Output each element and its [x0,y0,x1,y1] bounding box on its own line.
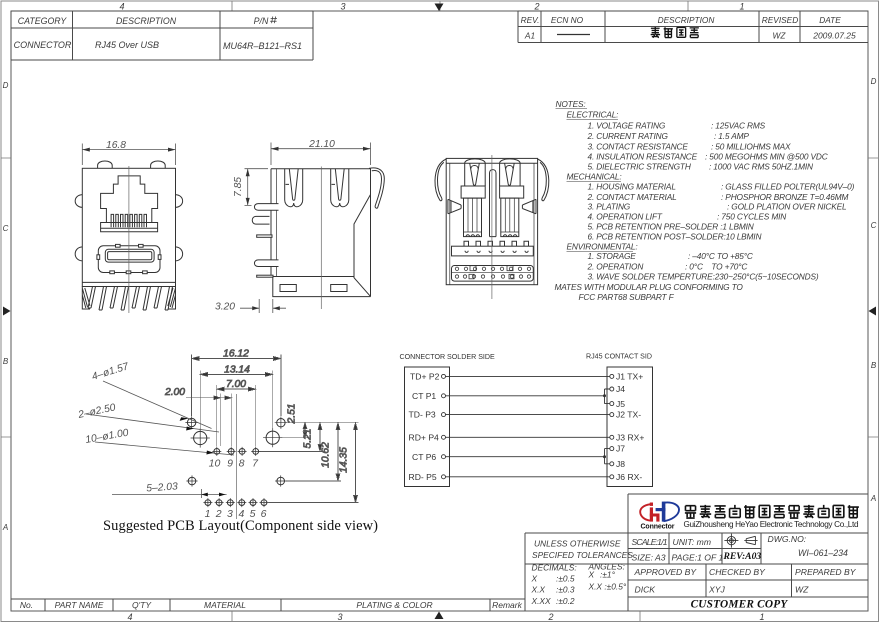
rear wing hook left [435,159,446,201]
side inner chamfer edge [354,195,371,297]
svg-text:PAGE:1 OF 1: PAGE:1 OF 1 [672,553,724,563]
pin 1 [205,500,211,506]
dim 16.8 extension lines [82,144,175,166]
svg-text::±0.3: :±0.3 [556,585,575,595]
dim 2.00 leader [186,397,231,399]
pcb extension lines vertical [192,355,281,447]
side hook tab [252,216,269,224]
rear latch finger left base [461,186,485,198]
svg-text:J4: J4 [616,384,625,394]
front side latch top-right [176,195,183,208]
side press tab pill 1 [254,204,278,211]
svg-text:SPECIFED TOLERANCES: SPECIFED TOLERANCES [532,550,633,560]
wire CTP6 to J7/J8 [446,449,610,464]
rear latch finger left [465,159,486,186]
wire TD-P3 to J2 [446,414,610,416]
svg-text:: 1.5 AMP: : 1.5 AMP [714,131,749,141]
rear side funnel left [448,199,461,214]
junction dot CT P6 [603,455,606,458]
center arrow top [435,4,444,12]
svg-text:2.51: 2.51 [287,403,298,424]
rear lower band [452,266,534,282]
junction dot CT P1 [603,394,606,397]
svg-text:DWG.NO:: DWG.NO: [768,534,807,544]
logo blue bar horizontal [656,508,666,511]
PCB LAYOUT [164,349,359,503]
svg-text::±0.2: :±0.2 [556,596,575,606]
svg-text:PART NAME: PART NAME [55,600,104,610]
svg-text:DATE: DATE [819,15,841,25]
svg-text:: 50 MILLIOHMS MAX: : 50 MILLIOHMS MAX [711,142,791,152]
svg-text:7: 7 [252,458,259,470]
rear latch finger right [500,159,520,186]
svg-text:ENVIRONMENTAL:: ENVIRONMENTAL: [567,242,638,252]
pin 10 [214,449,220,455]
dim 2.51 line [304,423,306,438]
side small bar [257,235,272,237]
dim 3.20 extension lines [259,299,273,313]
logo red left leg [650,507,653,521]
svg-text:: GOLD PLATION OVER NICKEL: : GOLD PLATION OVER NICKEL [727,202,847,212]
front leg hatch right [168,287,176,310]
svg-text:2. CURRENT RATING: 2. CURRENT RATING [587,131,669,141]
logo blue swoosh [663,502,679,521]
dim 21.10 extension lines [271,143,371,166]
svg-text:7.00: 7.00 [226,379,246,390]
svg-text:REVISED: REVISED [762,15,798,25]
logo red crossbar [650,514,660,517]
hole 2.03 bottom-left [188,477,196,485]
dim 3.20 arrows [252,306,259,310]
ECN dash [557,34,590,36]
center arrow right [869,307,877,316]
plate hole left [280,285,296,292]
svg-text:ECN NO: ECN NO [551,15,584,25]
usb nubs [97,244,161,273]
svg-text:CONNECTOR: CONNECTOR [14,40,72,50]
center arrow left [3,307,11,316]
svg-text:GuiZhousheng HeYao Electronic: GuiZhousheng HeYao Electronic Technology… [684,520,859,529]
rear contact housing right [501,198,519,237]
zone ticks top [232,1,688,11]
svg-text:J1 TX+: J1 TX+ [616,372,643,382]
dim 5.21 line [319,423,321,452]
svg-text:WZ: WZ [795,585,809,595]
rear housing right contacts [503,235,517,237]
hole 1.57 top-right [277,419,285,427]
svg-text:B: B [871,361,877,370]
front body outline [82,168,175,286]
side ground finger (top right) [369,168,384,208]
svg-text:DESCRIPTION: DESCRIPTION [658,15,715,25]
wiring left box [405,367,450,487]
FRONT VIEW [75,161,182,310]
rear wing hook right [538,159,549,201]
svg-text:CHECKED BY: CHECKED BY [709,567,766,577]
pin 3 [227,500,233,506]
hole 2.03 bottom-right [277,477,285,485]
rj45 inner shelf [101,223,158,229]
hole 1.57 top-left [187,418,195,426]
svg-text:: 1000 VAC RMS 50HZ.1MIN: : 1000 VAC RMS 50HZ.1MIN [709,162,813,172]
svg-text:: 500 MEGOHMS MIN @500 VDC: : 500 MEGOHMS MIN @500 VDC [705,152,829,162]
svg-text:16.12: 16.12 [223,349,249,360]
svg-text:NOTES:: NOTES: [556,99,586,109]
rear side funnel right [522,199,536,214]
svg-text:RJ45 CONTACT SID: RJ45 CONTACT SID [586,353,652,361]
BOTTOM STRIP grid [11,599,525,611]
zone ticks bottom [232,611,640,621]
svg-text:DECIMALS:: DECIMALS: [532,563,577,573]
pin 7 [253,449,259,455]
svg-text:2.00: 2.00 [164,387,185,398]
side body outline [271,169,371,297]
svg-text:MATES WITH MODULAR PLUG CONFOR: MATES WITH MODULAR PLUG CONFORMING TO [555,282,744,292]
side tail plate [257,275,273,277]
dim 3.20 line [240,307,286,309]
svg-text:X.XX: X.XX [531,596,551,606]
svg-text:4–ø1.57: 4–ø1.57 [91,361,132,383]
svg-text:RD- P5: RD- P5 [409,472,437,482]
svg-text::±1°: :±1° [600,570,616,580]
TOLERANCE BLOCK box [525,533,628,611]
svg-text:2009.07.25: 2009.07.25 [812,31,856,41]
pin 6 [261,500,267,506]
front side latch bottom-left [75,247,82,261]
rear band divider [452,272,534,274]
svg-text:3. CONTACT RESISTANCE: 3. CONTACT RESISTANCE [588,142,689,152]
left pin circles [442,374,446,378]
svg-text:X: X [588,570,595,580]
svg-text:4: 4 [127,612,132,622]
svg-text:13.14: 13.14 [224,364,250,375]
dim 13.14 line [200,373,273,375]
side inner wall line [276,169,278,277]
dim 16.12 line [192,358,281,360]
svg-text:21.10: 21.10 [308,139,335,150]
svg-text:CUSTOMER COPY: CUSTOMER COPY [691,599,789,611]
side centerline [320,167,322,310]
svg-text:1. STORAGE: 1. STORAGE [588,251,637,261]
front top bump left [98,161,113,168]
svg-text:CT P1: CT P1 [412,391,436,401]
svg-text:CT P6: CT P6 [412,452,436,462]
svg-text:: 750 CYCLES MIN: : 750 CYCLES MIN [717,212,786,222]
svg-text:5–2.03: 5–2.03 [146,481,178,494]
svg-text:SCALE:1/1: SCALE:1/1 [632,537,668,547]
rear body outline [446,158,537,284]
svg-text:No.: No. [20,600,33,610]
logo red right leg [656,514,659,522]
svg-text:Q'TY: Q'TY [132,600,152,610]
side bottom plate [273,277,371,297]
REAR VIEW [435,158,549,284]
svg-text:J2 TX-: J2 TX- [616,410,641,420]
SIDE VIEW [252,168,384,297]
svg-text:REV:A03: REV:A03 [723,551,762,562]
hole 2.50 right [266,431,279,444]
svg-text:9: 9 [227,458,233,470]
svg-text:Suggested PCB Layout(Component: Suggested PCB Layout(Component side view… [103,518,378,534]
wire RD+P4 to J3 [446,436,610,438]
svg-text::±0.5: :±0.5 [556,574,575,584]
svg-text:: PHOSPHOR BRONZE T=0.46MM: : PHOSPHOR BRONZE T=0.46MM [721,192,849,202]
svg-text:D: D [871,77,877,86]
svg-text:PLATING & COLOR: PLATING & COLOR [356,600,432,610]
svg-text:2. CONTACT MATERIAL: 2. CONTACT MATERIAL [587,192,678,202]
pin 9 [228,449,234,455]
projection symbol circle [724,534,738,548]
wire CTP1 to J4/J5 [446,389,610,404]
svg-text:P/N: P/N [254,16,269,26]
wire RD-P5 to J6 [446,476,610,478]
svg-text:1. VOLTAGE RATING: 1. VOLTAGE RATING [588,121,666,131]
svg-text:3: 3 [340,2,345,12]
svg-text:C: C [3,224,9,233]
usb opening mid [105,249,154,262]
svg-text:X.X :±0.5°: X.X :±0.5° [588,582,627,592]
svg-text:RD+ P4: RD+ P4 [409,432,440,442]
leader 10-1.00 [95,442,234,455]
rj45 contact comb [111,214,146,227]
dim 7.85 arrows [246,169,250,177]
svg-text:UNIT: mm: UNIT: mm [673,537,712,547]
TITLE BLOCK grid [628,494,868,611]
leader 2-2.50 [86,414,219,432]
dim 21.10 line [271,148,371,150]
svg-text:2–ø2.50: 2–ø2.50 [76,402,116,421]
svg-text:UNLESS OTHERWISE: UNLESS OTHERWISE [534,539,621,549]
svg-text:TD+ P2: TD+ P2 [410,372,440,382]
svg-text:J3 RX+: J3 RX+ [616,432,644,442]
svg-text:SIZE: A3: SIZE: A3 [632,553,666,563]
zone ticks right [868,158,878,437]
svg-text:1: 1 [759,612,764,622]
svg-text:5. PCB RETENTION PRE–SOLDER :1: 5. PCB RETENTION PRE–SOLDER :1 LBMIN [588,222,754,232]
wire TD+P2 to J1 [446,375,610,377]
svg-text:10: 10 [209,458,221,470]
pin 2 [216,500,222,506]
label P/N [270,17,277,24]
rear top rail line [446,162,537,164]
pcb right extension lines [260,423,359,503]
svg-text:D: D [3,81,9,90]
front side latch bottom-right [176,247,183,261]
front body bottom band line [82,281,175,283]
svg-text:X: X [531,574,538,584]
plate hole right [331,285,347,292]
rear inner side walls [450,163,534,285]
side V finger 1 [285,169,303,207]
dim 21.10 arrows [271,147,279,151]
rear center channel [490,170,497,237]
svg-text:Connector: Connector [641,524,675,531]
right pin circles [610,374,614,378]
svg-text:14.35: 14.35 [339,447,350,473]
logo red C arc [640,504,650,520]
pcb centerline [236,394,238,519]
svg-text:A: A [2,523,8,532]
front top bump right [151,161,166,168]
svg-text:2: 2 [533,2,539,12]
svg-text:CATEGORY: CATEGORY [18,16,68,26]
svg-text:8: 8 [239,458,245,470]
usb opening outer [98,246,160,273]
svg-text:5.21: 5.21 [303,428,314,448]
svg-text:Remark: Remark [492,600,523,610]
CJK text new drawing (drawn glyphs) [651,27,699,38]
svg-text:J8: J8 [616,459,625,469]
rear lower band pads row 2 [455,274,530,279]
svg-text:4: 4 [119,2,124,12]
svg-text:J6 RX-: J6 RX- [616,472,642,482]
rear housing left contacts [466,235,480,237]
projection symbol cone [744,536,757,544]
logo red i dot [650,503,653,506]
svg-text:: 0°C TO +70°C: : 0°C TO +70°C [685,262,748,272]
rear centerline [491,155,493,299]
rear upper band [452,246,534,256]
svg-text:16.8: 16.8 [106,140,126,151]
rear band tabs [464,241,529,246]
logo blue tall leg [662,502,666,522]
rj45 opening [101,176,158,232]
svg-text:PREPARED BY: PREPARED BY [795,567,857,577]
leader 4-1.57 [103,381,212,429]
usb tongue [108,252,152,260]
front leg hatch left [82,287,90,310]
center arrow bottom [435,612,444,620]
svg-text:3.20: 3.20 [215,302,235,313]
dim 16.8 arrows [82,148,90,152]
rear contact housing left [464,198,482,237]
dim 7.00 line [217,388,256,390]
svg-text:WI–061–234: WI–061–234 [798,548,848,558]
zone ticks left [1,158,11,437]
svg-text:CONNECTOR SOLDER SIDE: CONNECTOR SOLDER SIDE [400,353,496,361]
svg-text:4. INSULATION RESISTANCE: 4. INSULATION RESISTANCE [588,152,698,162]
svg-text:3. PLATING: 3. PLATING [588,202,631,212]
side V finger 2 [331,169,349,207]
svg-text:APPROVED BY: APPROVED BY [634,567,698,577]
svg-text:DESCRIPTION: DESCRIPTION [116,16,177,26]
svg-text:: GLASS FILLED POLTER(UL94V–0): : GLASS FILLED POLTER(UL94V–0) [721,182,855,192]
pin 8 [239,449,245,455]
front side latch top-left [75,195,82,208]
dim 10.62 line [337,423,339,481]
dim 7.85 line [247,169,249,206]
rear lower band pads row 1 [455,266,530,271]
svg-text:7.85: 7.85 [233,177,244,197]
notes block [555,99,855,302]
side press tab pill 2 [254,260,278,267]
svg-text:3. WAVE SOLDER TEMPERTURE:230~: 3. WAVE SOLDER TEMPERTURE:230~250°C(5~10… [588,272,819,282]
front solder legs [88,287,173,311]
pin 4 [239,500,245,506]
leader 5-2.03 [112,489,227,498]
svg-text:ELECTRICAL:: ELECTRICAL: [567,110,619,120]
part-number table grid [11,11,313,60]
svg-text:X.X: X.X [531,585,546,595]
svg-text:C: C [871,221,877,230]
svg-text:1. HOUSING MATERIAL: 1. HOUSING MATERIAL [588,182,677,192]
pin 5 [250,500,256,506]
svg-text:2: 2 [547,612,553,622]
svg-text:: 125VAC RMS: : 125VAC RMS [711,121,766,131]
svg-text:: –40°C TO +85°C: : –40°C TO +85°C [688,251,754,261]
wiring right box [607,367,653,487]
svg-text:MATERIAL: MATERIAL [204,600,246,610]
svg-text:REV.: REV. [521,15,540,25]
svg-text:MU64R–B121–RS1: MU64R–B121–RS1 [223,41,302,51]
dim 14.35 line [355,423,357,503]
svg-text:3: 3 [337,612,342,622]
svg-text:J7: J7 [616,444,625,454]
svg-text:MECHANICAL:: MECHANICAL: [567,172,622,182]
svg-text:2. OPERATION: 2. OPERATION [587,262,644,272]
front centerline [128,166,130,313]
svg-text:TD- P3: TD- P3 [409,410,436,420]
dim 7.85 extension lines [245,169,269,206]
svg-text:A1: A1 [524,31,535,41]
svg-text:B: B [3,357,9,366]
svg-text:4. OPERATION LIFT: 4. OPERATION LIFT [588,212,663,222]
revision table grid [518,11,868,43]
rear band slots [465,251,528,253]
svg-text:WZ: WZ [773,31,787,41]
svg-text:5. DIELECTRIC STRENGTH: 5. DIELECTRIC STRENGTH [588,162,691,172]
svg-text:FCC PART68 SUBPART F: FCC PART68 SUBPART F [579,292,675,302]
rear latch finger right base [500,186,524,198]
svg-text:1: 1 [739,2,744,12]
svg-text:A: A [870,494,876,503]
svg-text:DICK: DICK [635,585,657,595]
svg-text:6. PCB RETENTION POST–SOLDER:1: 6. PCB RETENTION POST–SOLDER:10 LBMIN [588,232,762,242]
dim 16.8 line [82,149,175,151]
svg-text:XYJ: XYJ [708,585,725,595]
hole 2.50 left [194,431,207,444]
svg-text:J5: J5 [616,399,625,409]
svg-text:RJ45 Over USB: RJ45 Over USB [95,40,159,50]
svg-text:10.62: 10.62 [321,442,332,468]
company CJK name (drawn glyphs) [685,505,859,518]
